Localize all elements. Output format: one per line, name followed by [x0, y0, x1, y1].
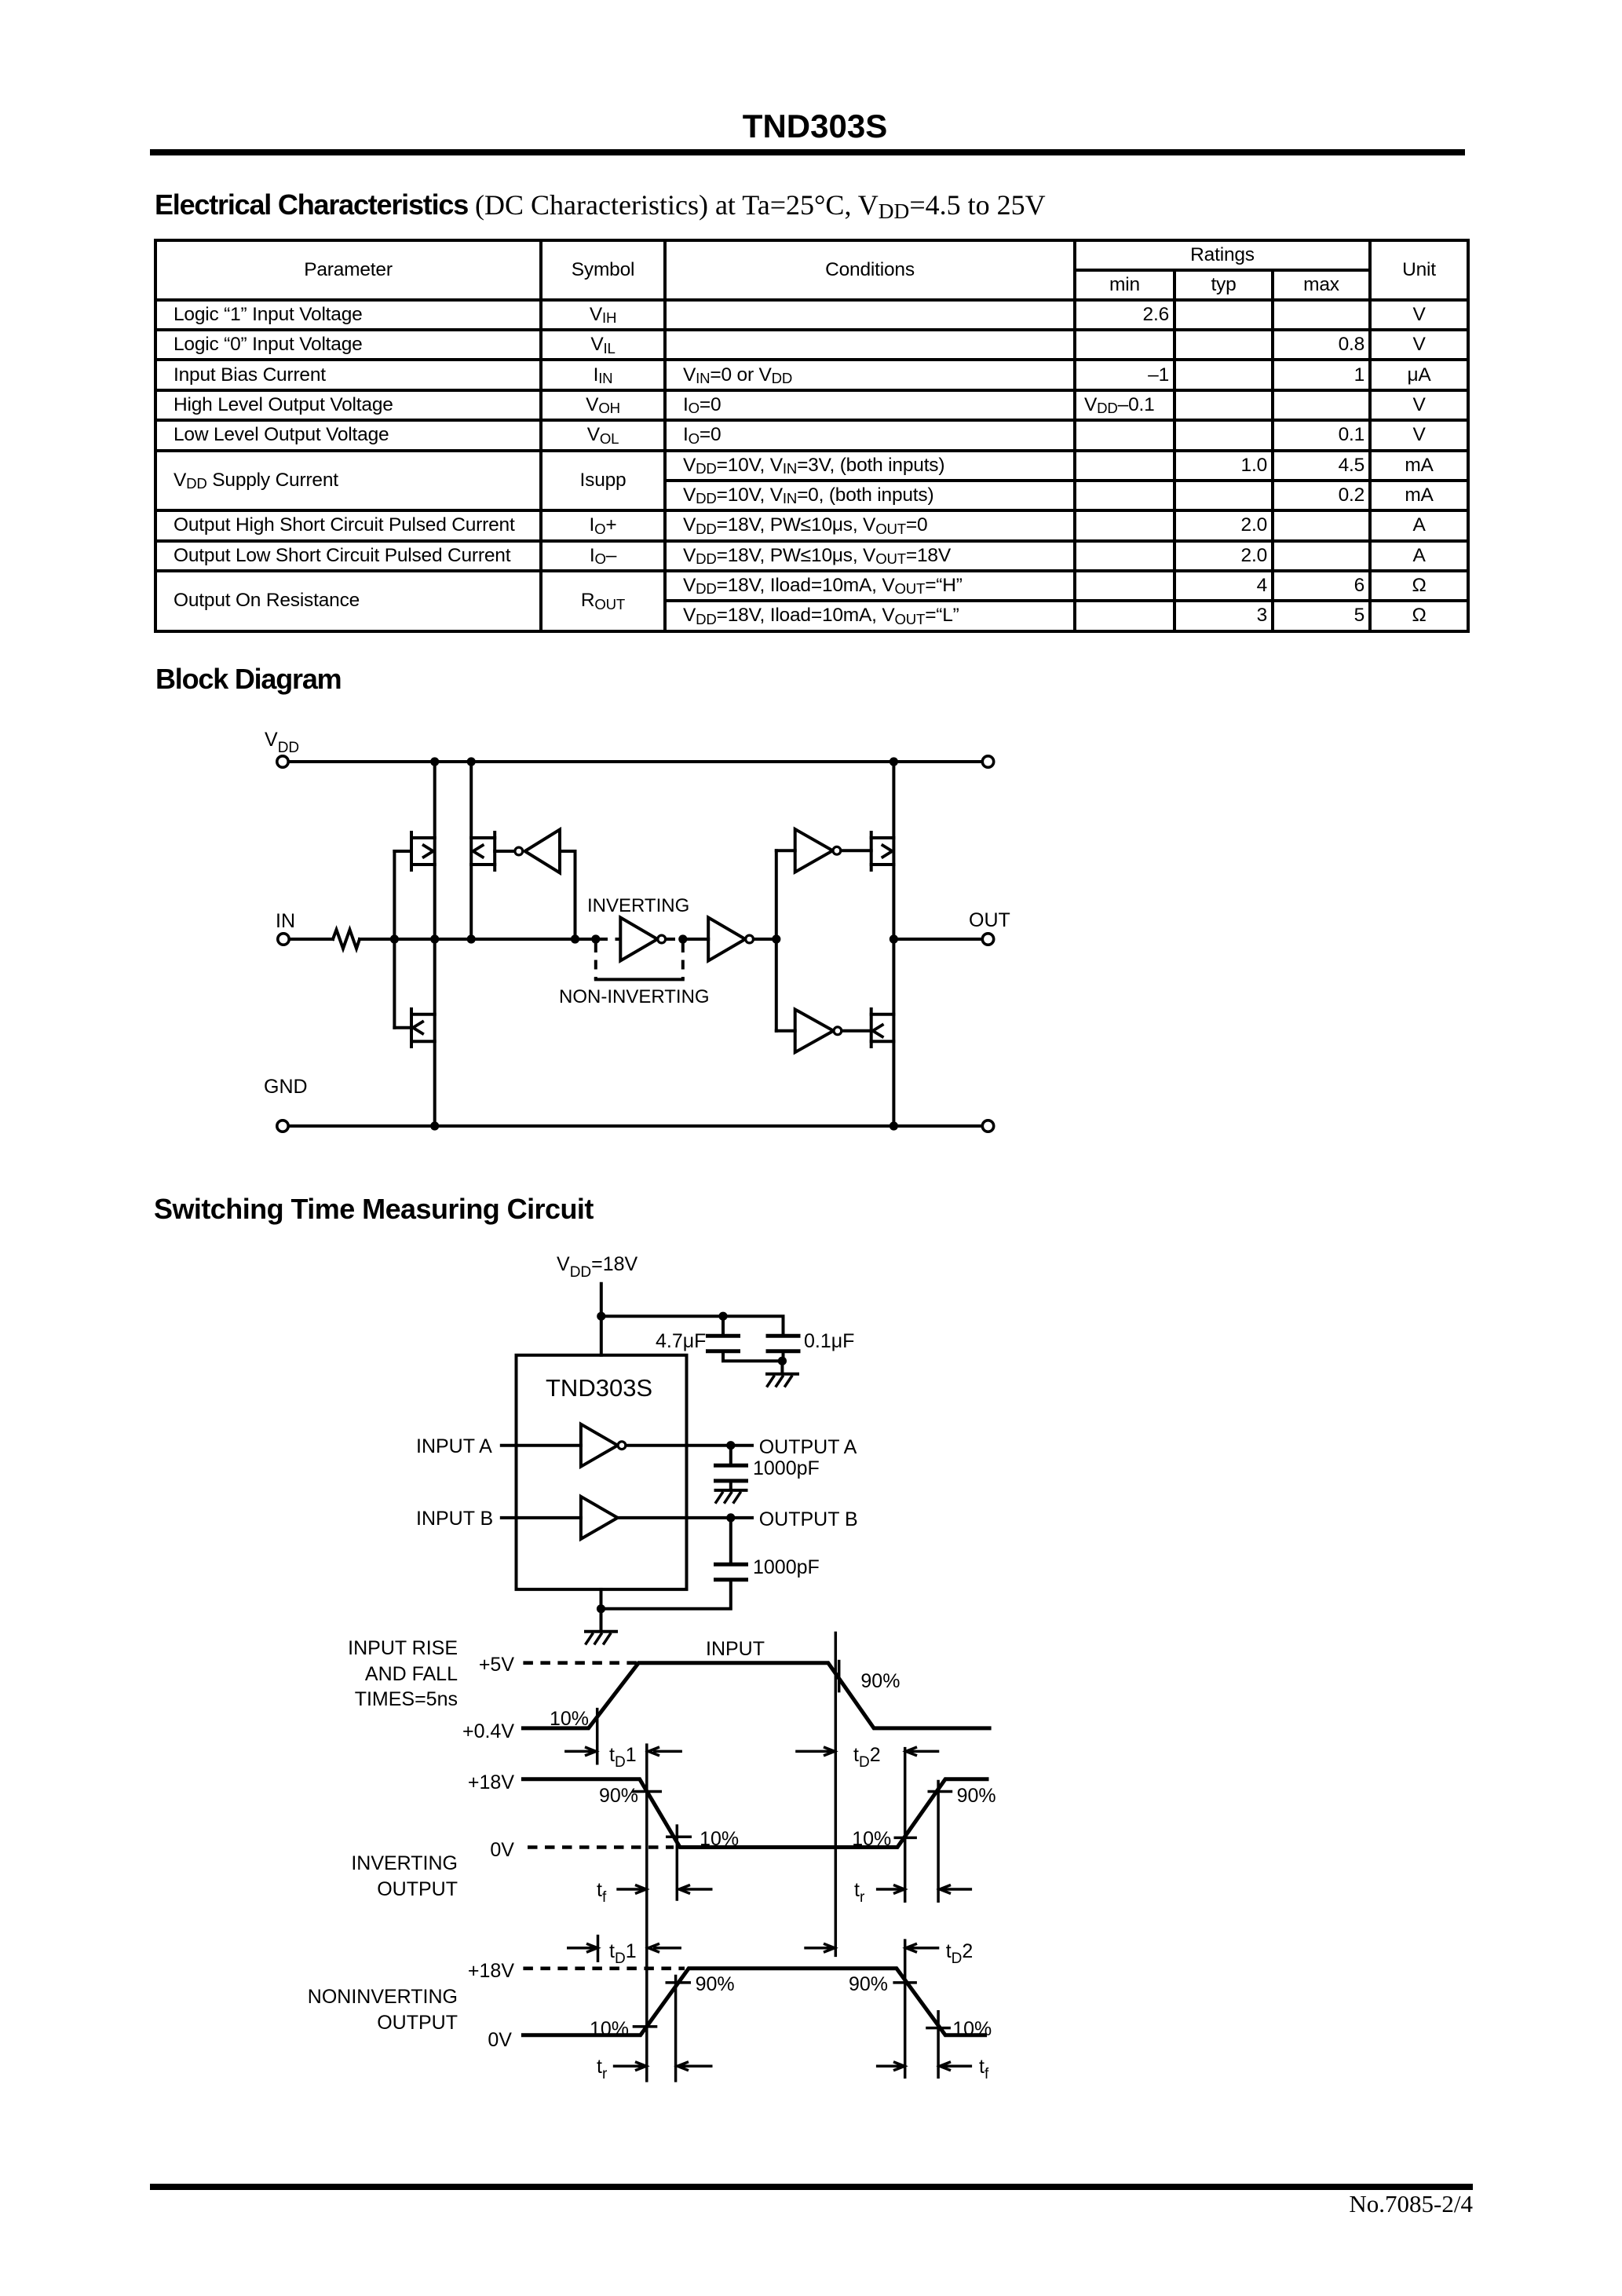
wire VDD drop [600, 1284, 603, 1355]
svg-text:NON-INVERTING: NON-INVERTING [559, 986, 710, 1007]
label 10% input [550, 1708, 589, 1730]
ground IC [586, 1632, 617, 1645]
svg-text:tf: tf [979, 2056, 989, 2082]
wire to OUT terminal [893, 938, 982, 941]
label INVERTING OUTPUT [351, 1852, 458, 1900]
wire gate bus vertical [393, 851, 396, 1028]
svg-text:+18V: +18V [468, 1771, 514, 1793]
wire dashed INV1 to node [666, 938, 683, 941]
svg-text:10%: 10% [700, 1828, 739, 1850]
tick 10% noninverting rise [633, 2025, 658, 2028]
wire driver bus vertical [775, 850, 778, 1031]
junction output node [890, 934, 898, 943]
footer page number [1237, 2190, 1473, 2218]
svg-text:VDD: VDD [265, 729, 299, 756]
svg-text:90%: 90% [957, 1785, 996, 1807]
tick 90% inverting rise [928, 1790, 953, 1793]
reference line R1 inverting 90% fall [645, 1743, 648, 2082]
capacitor C1 4.7uF [706, 1316, 782, 1361]
inverter INV1 inverting path [620, 918, 665, 961]
svg-text:OUTPUT: OUTPUT [377, 1878, 458, 1900]
inverter INV3 upper driver [795, 829, 871, 872]
svg-text:GND: GND [264, 1076, 308, 1098]
svg-text:90%: 90% [860, 1670, 900, 1692]
junction output A node [726, 1441, 735, 1450]
label 4.7uF [656, 1330, 706, 1352]
waveform NONINVERTING OUTPUT [523, 1969, 985, 2035]
junction at T1/T3 channel [430, 934, 439, 943]
svg-text:+5V: +5V [479, 1654, 515, 1676]
tick 90% input falling [838, 1660, 841, 1693]
label INPUT RISE AND FALL TIMES=5ns [348, 1637, 458, 1710]
dashed +18V level noninverting [523, 1967, 685, 1971]
wire IC ground stem [600, 1589, 603, 1630]
svg-text:0V: 0V [488, 2029, 512, 2051]
svg-text:INPUT RISE: INPUT RISE [348, 1637, 458, 1659]
resistor input series [333, 930, 360, 949]
junction input node gates [390, 934, 399, 943]
dashed 0V level inverting [528, 1845, 674, 1849]
label INPUT A [416, 1435, 492, 1457]
ground load A [715, 1490, 747, 1504]
net VDD=18V label [557, 1253, 638, 1281]
capacitor load A 1000pF [714, 1446, 748, 1490]
junction on VDD rail at T1 drain [430, 757, 439, 766]
tick 90% inverting fall [632, 1790, 662, 1793]
svg-text:TIMES=5ns: TIMES=5ns [355, 1688, 458, 1710]
reference line R1b inverting fall end [676, 1824, 679, 1900]
dimension tD2 upper [795, 1744, 939, 1771]
tick 10% inverting rise [894, 1837, 917, 1840]
label INPUT B [416, 1508, 493, 1530]
svg-text:AND FALL: AND FALL [365, 1663, 458, 1685]
svg-text:tD1: tD1 [609, 1940, 637, 1967]
wire T1/T3 channel vertical [433, 762, 437, 1126]
svg-text:10%: 10% [952, 2018, 992, 2040]
svg-text:tf: tf [597, 1879, 607, 1906]
inverter INV2 [708, 918, 753, 961]
tick 10% noninverting fall [926, 2027, 951, 2030]
heading Switching Time Measuring Circuit [154, 1193, 594, 1226]
wire OUTPUT B [618, 1516, 752, 1519]
svg-text:INPUT B: INPUT B [416, 1508, 493, 1530]
transistor T5 NMOS output low-side [871, 1009, 894, 1047]
svg-text:4.7μF: 4.7μF [656, 1330, 706, 1352]
svg-text:IN: IN [276, 910, 295, 932]
node IN label [276, 910, 295, 932]
label OUTPUT A [759, 1436, 857, 1458]
junction at C1 top [718, 1312, 727, 1321]
label +18V noninverting [468, 1960, 514, 1982]
wire IN to resistor [290, 938, 334, 941]
label OUTPUT B [759, 1508, 858, 1530]
label 90% noninverting rise [696, 1973, 735, 1995]
label 10% inverting fall [700, 1828, 739, 1850]
heading Block Diagram [155, 663, 342, 696]
svg-text:tD2: tD2 [946, 1940, 974, 1967]
junction output B node [726, 1513, 735, 1522]
wire GND rail [289, 1124, 982, 1128]
waveform INVERTING OUTPUT [523, 1779, 987, 1848]
tick 10% inverting fall [666, 1835, 692, 1838]
svg-text:INVERTING: INVERTING [351, 1852, 458, 1874]
tick 90% noninverting fall [893, 1981, 917, 1984]
label 90% noninverting fall [849, 1973, 888, 1995]
svg-text:10%: 10% [590, 2018, 629, 2040]
label 90% input [860, 1670, 900, 1692]
svg-text:INPUT: INPUT [706, 1638, 765, 1660]
svg-text:INVERTING: INVERTING [587, 895, 689, 916]
wire to INV3 input [776, 849, 795, 852]
junction dashed-box top-left [591, 934, 600, 943]
dashed +5V level [523, 1661, 637, 1665]
svg-text:+18V: +18V [468, 1960, 514, 1982]
heading Electrical Characteristics [155, 188, 1046, 221]
OUT terminal [982, 934, 993, 945]
inverter A [581, 1424, 626, 1467]
wire resistor to input node [360, 938, 596, 941]
svg-text:10%: 10% [550, 1708, 589, 1730]
capacitor C2 0.1uF [766, 1336, 801, 1361]
junction at T2 channel [467, 934, 476, 943]
tick 10% input rising [596, 1708, 599, 1765]
junction dashed-box top-right [678, 934, 687, 943]
VDD terminal [277, 756, 288, 767]
svg-text:tD1: tD1 [609, 1744, 637, 1771]
buffer B [581, 1497, 618, 1539]
reference line R2 inverting 10% rise (upper segment) [904, 1747, 907, 1903]
node GND label [264, 1076, 308, 1098]
IN terminal [278, 934, 289, 945]
table Electrical Characteristics [154, 239, 1470, 633]
node VDD label [265, 729, 299, 756]
svg-text:90%: 90% [849, 1973, 888, 1995]
label 90% inverting rise [957, 1785, 996, 1807]
reference line R2b noninverting fall end (lower segment) [937, 2010, 940, 2078]
wire T2 channel vertical [469, 762, 473, 939]
label 1000pF load A [753, 1457, 820, 1479]
footer rule [150, 2184, 1473, 2190]
wire VDD rail [289, 760, 982, 763]
svg-text:OUTPUT B: OUTPUT B [759, 1508, 858, 1530]
transistor T3 NMOS lower-left [394, 1009, 434, 1047]
waveform INPUT [523, 1663, 989, 1728]
svg-text:INPUT A: INPUT A [416, 1435, 492, 1457]
wire dashed into inverter INV1 [598, 938, 620, 941]
svg-text:0.1μF: 0.1μF [804, 1330, 854, 1352]
label +18V inverting [468, 1771, 514, 1793]
svg-text:TND303S: TND303S [546, 1374, 652, 1402]
capacitor load B 1000pF [601, 1518, 749, 1609]
svg-text:tr: tr [597, 2056, 608, 2082]
wire INPUT A [502, 1444, 581, 1447]
svg-text:OUTPUT: OUTPUT [377, 2012, 458, 2034]
title TND303S [575, 108, 1054, 145]
label NONINVERTING OUTPUT [308, 1986, 458, 2034]
label +0.4V [462, 1720, 514, 1742]
svg-text:OUT: OUT [969, 909, 1010, 931]
label 0V noninverting [488, 2029, 512, 2051]
junction driver bus [772, 934, 780, 943]
dimension tr inverting [854, 1879, 972, 1906]
dimension tD1 upper [564, 1744, 682, 1771]
junction VDD node [597, 1312, 605, 1321]
junction at bypass ground [778, 1357, 787, 1366]
junction on GND rail at T5 source [890, 1121, 898, 1130]
wire INPUT B [502, 1516, 581, 1519]
svg-text:1000pF: 1000pF [753, 1457, 820, 1479]
node OUT label [969, 909, 1010, 931]
wire INV2 to driver bus [754, 938, 776, 941]
svg-text:tr: tr [854, 1879, 865, 1906]
label 10% noninverting rise [590, 2018, 629, 2040]
IC box TND303S [517, 1355, 687, 1589]
label NON-INVERTING [559, 986, 710, 1007]
dimension tD2 lower [804, 1940, 973, 1967]
label INVERTING [587, 895, 689, 916]
transistor T4 PMOS output high-side [871, 832, 894, 870]
dimension tf inverting [597, 1879, 713, 1906]
junction on GND rail at T3 source [430, 1121, 439, 1130]
svg-text:90%: 90% [599, 1785, 638, 1807]
svg-text:0V: 0V [490, 1839, 514, 1861]
wire node to INV2 [683, 938, 708, 941]
svg-text:OUTPUT A: OUTPUT A [759, 1436, 857, 1458]
svg-text:+0.4V: +0.4V [462, 1720, 514, 1742]
svg-text:1000pF: 1000pF [753, 1556, 820, 1578]
reference line input 90% fall [835, 1632, 838, 1957]
label 1000pF load B [753, 1556, 820, 1578]
dashed box non-inverting option [596, 943, 683, 979]
wire to INV4 input [776, 1029, 795, 1033]
dimension tr noninverting [597, 2056, 713, 2082]
GND right terminal [982, 1121, 993, 1132]
reference line R2b inverting rise end (upper segment) [937, 1780, 940, 1903]
tick 90% noninverting rise [666, 1981, 692, 1984]
wire VDD to bypass caps [601, 1316, 784, 1334]
inverter INV4 lower driver [795, 1010, 871, 1053]
label 10% inverting rise [852, 1828, 891, 1850]
VDD right terminal [982, 756, 993, 767]
inverter feedback (points left) driving T2 gate [515, 830, 575, 940]
reference line R2 (lower segment) [904, 1939, 907, 2078]
label 0V inverting [490, 1839, 514, 1861]
svg-text:NONINVERTING: NONINVERTING [308, 1986, 458, 2008]
header rule [150, 149, 1465, 155]
dimension tf noninverting [876, 2056, 989, 2082]
label 10% noninverting fall [952, 2018, 992, 2040]
transistor T2 PMOS upper-middle [471, 832, 515, 870]
svg-text:tD2: tD2 [853, 1744, 881, 1771]
wire OUTPUT A [626, 1444, 752, 1447]
junction IC ground node [597, 1604, 605, 1613]
label 0.1uF [804, 1330, 854, 1352]
label +5V [479, 1654, 515, 1676]
label 90% inverting fall [599, 1785, 638, 1807]
ground bypass caps [767, 1361, 798, 1387]
dimension tD1 lower [567, 1935, 681, 1967]
junction on VDD rail at T4 drain [890, 757, 898, 766]
junction at feedback inverter input [571, 934, 579, 943]
transistor T1 PMOS upper-left [394, 832, 434, 870]
reference line R1b noninverting rise end (lower segment) [674, 1975, 678, 2082]
label TND303S [546, 1374, 652, 1402]
GND terminal [277, 1121, 288, 1132]
wire T4/T5 channel vertical [892, 762, 895, 1126]
svg-text:VDD=18V: VDD=18V [557, 1253, 638, 1281]
svg-text:90%: 90% [696, 1973, 735, 1995]
junction on VDD rail at T2 drain [467, 757, 476, 766]
svg-text:10%: 10% [852, 1828, 891, 1850]
label INPUT [706, 1638, 765, 1660]
